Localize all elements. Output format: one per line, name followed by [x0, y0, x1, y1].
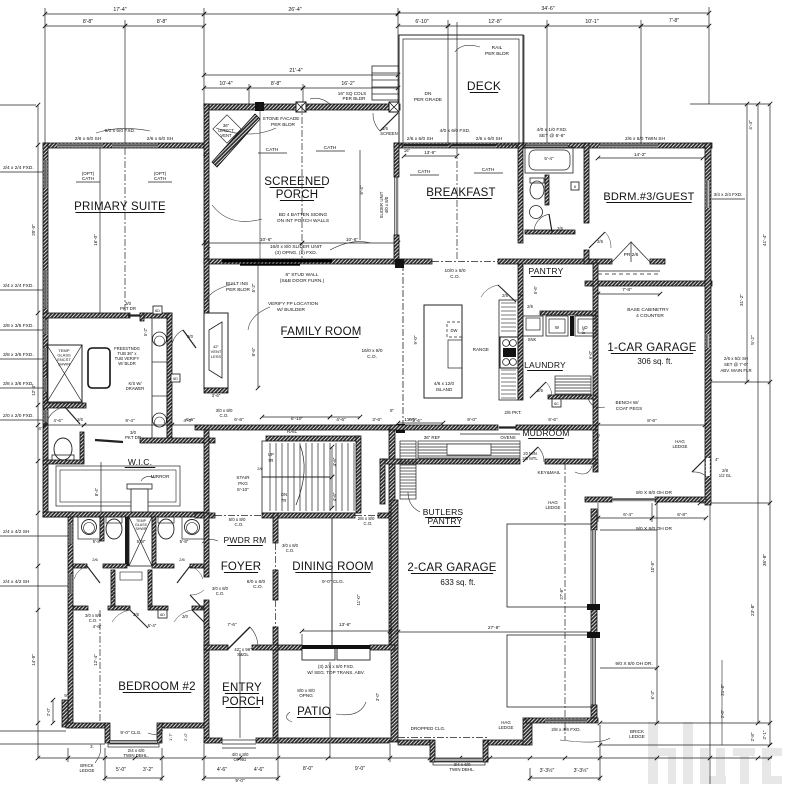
svg-text:2'-1": 2'-1"	[762, 730, 767, 739]
svg-text:2'-8": 2'-8"	[750, 732, 755, 741]
window twin SH	[600, 144, 658, 148]
svg-text:7'-8": 7'-8"	[622, 287, 632, 293]
svg-text:C.O.: C.O.	[450, 274, 460, 280]
window 2/8x4/6	[545, 719, 587, 723]
pocket door bath	[128, 314, 140, 316]
wall vanity east	[167, 313, 172, 440]
svg-text:ON INT PORCH WALLS: ON INT PORCH WALLS	[277, 218, 329, 224]
toilet bath2	[530, 181, 544, 199]
wall bedroom2 south east	[162, 723, 207, 728]
wall closet d	[192, 606, 205, 610]
svg-text:7R: 7R	[281, 498, 286, 503]
svg-text:1-CAR GARAGE: 1-CAR GARAGE	[607, 342, 696, 354]
svg-text:4'-6": 4'-6"	[93, 624, 102, 629]
svg-text:W.I.C.: W.I.C.	[128, 457, 152, 467]
svg-text:2/4 x 4/2 SH: 2/4 x 4/2 SH	[3, 579, 30, 585]
svg-text:C.O.: C.O.	[234, 522, 243, 527]
svg-text:3'-6": 3'-6"	[372, 417, 382, 423]
svg-text:ENTRY: ENTRY	[222, 682, 262, 694]
svg-text:RANGE: RANGE	[473, 347, 489, 352]
svg-text:9'-0" CLG.: 9'-0" CLG.	[120, 730, 141, 735]
svg-text:DECK: DECK	[467, 79, 501, 93]
wall garage south west piece	[585, 497, 612, 502]
svg-text:VENT: VENT	[220, 133, 232, 138]
svg-text:6D: 6D	[160, 613, 165, 617]
wall foyer north b	[262, 513, 355, 518]
svg-text:PR 2/6: PR 2/6	[624, 252, 639, 258]
svg-text:PER BLDR: PER BLDR	[485, 51, 510, 57]
svg-text:(S&B DOOR FURN.): (S&B DOOR FURN.)	[280, 278, 325, 284]
door bath2	[534, 214, 550, 232]
wall bdrm closet east	[650, 259, 665, 264]
svg-text:7'-8": 7'-8"	[669, 18, 679, 24]
svg-text:6'-8": 6'-8"	[677, 512, 687, 518]
svg-text:14'-8": 14'-8"	[31, 654, 36, 666]
svg-text:KEY&MAIL: KEY&MAIL	[538, 470, 561, 475]
wall top-left (primary suite)	[43, 143, 207, 148]
svg-text:CATH: CATH	[418, 169, 431, 175]
wall hall4	[190, 564, 205, 568]
svg-text:10'-6": 10'-6"	[260, 237, 273, 243]
svg-text:2/6: 2/6	[257, 466, 263, 471]
wall closet c	[150, 606, 168, 610]
svg-text:6'-10": 6'-10"	[415, 19, 428, 25]
svg-text:4'-6": 4'-6"	[183, 418, 193, 423]
door hall bath right	[177, 566, 190, 583]
closet shelf dash	[598, 270, 660, 272]
garage bay east	[483, 740, 488, 762]
svg-text:12'-4": 12'-4"	[31, 384, 36, 396]
bath hall sinks	[78, 517, 100, 539]
svg-text:9'-0": 9'-0"	[235, 778, 245, 783]
svg-text:2/0 x 2/0 FXD.: 2/0 x 2/0 FXD.	[3, 413, 34, 419]
svg-text:3'-6": 3'-6"	[212, 393, 221, 398]
fireplace niche family	[204, 313, 228, 388]
svg-text:4'-6": 4'-6"	[332, 492, 337, 501]
svg-text:4'-6": 4'-6"	[53, 418, 63, 423]
wall jog left	[43, 512, 73, 517]
wall WC east	[80, 432, 84, 462]
wall closet bottom / garage NW	[585, 281, 712, 286]
wall hall/WIC north	[140, 438, 215, 443]
wall WC north	[43, 403, 86, 408]
window	[44, 410, 48, 422]
svg-text:2'-0": 2'-0"	[46, 707, 51, 716]
window	[44, 160, 48, 188]
wall bdrm3 west upper	[584, 143, 589, 223]
wall garage south a	[398, 740, 430, 745]
svg-text:2/6: 2/6	[92, 557, 98, 562]
wall bdrm closet west	[596, 259, 612, 264]
svg-text:9'-0": 9'-0"	[355, 766, 365, 772]
wall bedroom2 south west	[66, 723, 105, 728]
svg-text:10'-6": 10'-6"	[346, 237, 359, 243]
svg-text:3/4 x 2/4 FXD.: 3/4 x 2/4 FXD.	[3, 165, 34, 171]
svg-text:26'-4": 26'-4"	[288, 7, 301, 13]
svg-text:23'-8": 23'-8"	[750, 604, 756, 617]
wall porch/family + breakfast/kitchen	[204, 259, 404, 264]
wall garage south step	[526, 718, 598, 723]
wall dining east	[389, 513, 395, 648]
svg-text:21'-8": 21'-8"	[720, 684, 725, 696]
WIC shelving	[56, 466, 180, 506]
svg-text:PATIO: PATIO	[297, 706, 331, 718]
wall left outer (primary suite)	[43, 143, 48, 517]
svg-text:SHWR: SHWR	[136, 527, 147, 531]
svg-text:5'-0": 5'-0"	[116, 767, 126, 773]
door bdrm3	[589, 232, 605, 248]
svg-text:SET @ 7'-0": SET @ 7'-0"	[724, 362, 749, 367]
svg-text:4/0 x 1/0 FXD.: 4/0 x 1/0 FXD.	[537, 127, 568, 133]
svg-text:D: D	[584, 325, 587, 330]
wall foyer west mid	[204, 513, 209, 577]
svg-text:OPNG: OPNG	[234, 757, 248, 762]
nook wall west	[380, 459, 385, 504]
watermark	[648, 722, 782, 784]
freestanding tub	[88, 348, 110, 388]
svg-text:6'-3": 6'-3"	[650, 690, 655, 699]
svg-text:8": 8"	[390, 408, 394, 413]
svg-text:12'-4": 12'-4"	[93, 654, 98, 666]
dim lines bottom	[38, 757, 772, 759]
wall top-right (breakfast/bath/bdrm3)	[394, 143, 712, 148]
wall foyer west upper	[204, 430, 209, 513]
svg-text:MUDROOM: MUDROOM	[522, 428, 569, 438]
wall 2car east pillar	[591, 607, 597, 635]
svg-text:12'-8": 12'-8"	[488, 19, 501, 25]
wall foyer/dining a	[273, 513, 278, 543]
svg-text:9'-0": 9'-0"	[413, 335, 418, 344]
svg-text:RAIL: RAIL	[492, 45, 503, 51]
svg-text:1/2 GL: 1/2 GL	[719, 473, 732, 478]
door bedroom2 a	[130, 610, 148, 628]
OH door 1-car	[612, 498, 655, 502]
svg-text:BENCH W/: BENCH W/	[616, 400, 640, 405]
svg-text:RAIL: RAIL	[287, 429, 298, 434]
svg-text:6": 6"	[207, 246, 211, 251]
svg-text:DN: DN	[425, 91, 432, 97]
wall entry east	[273, 650, 278, 743]
wall entry west	[204, 650, 209, 743]
svg-text:C.O.: C.O.	[363, 521, 372, 526]
svg-text:3'-2": 3'-2"	[143, 767, 153, 773]
pocket door WIC	[95, 440, 123, 442]
wall garage SE corner	[523, 718, 532, 745]
svg-text:27'-8": 27'-8"	[559, 588, 564, 600]
wall butlers north a	[390, 425, 498, 430]
window 4/0x1/0 FXD	[526, 144, 568, 148]
bay windows	[110, 740, 157, 744]
window 2/6x6/0 SH	[452, 144, 496, 148]
svg-text:PER GRADE: PER GRADE	[414, 97, 442, 103]
svg-text:2/6 x 6/0 SH: 2/6 x 6/0 SH	[476, 136, 503, 142]
shower	[47, 345, 82, 402]
wall closet a	[73, 606, 88, 610]
garage bay west	[430, 740, 435, 762]
svg-text:SCREEN: SCREEN	[380, 131, 397, 136]
svg-text:9'-0": 9'-0"	[467, 417, 477, 423]
svg-text:27'-8": 27'-8"	[488, 625, 501, 631]
svg-text:C.O.: C.O.	[367, 354, 377, 360]
svg-text:3'-0": 3'-0"	[375, 692, 380, 701]
door laundry	[530, 382, 546, 398]
svg-text:2/4 x 4/2 SH: 2/4 x 4/2 SH	[3, 529, 30, 535]
svg-text:306 sq. ft.: 306 sq. ft.	[637, 357, 672, 366]
window	[44, 320, 48, 334]
deck steps	[372, 66, 399, 100]
svg-text:6'-4": 6'-4"	[148, 623, 157, 628]
svg-text:FAMILY ROOM: FAMILY ROOM	[280, 326, 361, 338]
svg-text:2/6 x 6/0 SH: 2/6 x 6/0 SH	[407, 136, 434, 142]
OH door 2	[592, 635, 597, 705]
svg-text:21'-4": 21'-4"	[289, 68, 302, 74]
wall kitchen/laundry	[518, 295, 523, 400]
wall landing east	[389, 429, 395, 513]
svg-text:8'-6": 8'-6"	[647, 418, 657, 424]
svg-text:PANTRY: PANTRY	[529, 266, 564, 276]
svg-text:5'-4": 5'-4"	[544, 156, 554, 161]
wall breakfast west upper	[394, 143, 399, 177]
svg-text:C.O.: C.O.	[253, 584, 263, 590]
wall entry north a	[204, 645, 228, 650]
svg-text:COAT PEGS: COAT PEGS	[616, 406, 642, 411]
svg-text:BUILT INS: BUILT INS	[226, 281, 248, 287]
svg-text:2/6 PKT.: 2/6 PKT.	[504, 410, 521, 415]
svg-text:3.: 3.	[90, 744, 94, 749]
laundry counters	[523, 316, 543, 336]
wall entry south a	[204, 738, 222, 743]
svg-text:DINING ROOM: DINING ROOM	[292, 561, 373, 573]
svg-text:2/6: 2/6	[537, 388, 543, 393]
door primary bath	[183, 330, 196, 348]
deck outline	[399, 35, 523, 145]
kitchen cased opening	[432, 261, 498, 263]
svg-text:8'-0": 8'-0"	[303, 766, 313, 772]
svg-text:W/ SEG. TOP TRANS. ABV.: W/ SEG. TOP TRANS. ABV.	[307, 670, 365, 675]
svg-text:3/0: 3/0	[182, 614, 188, 619]
garage centerline	[564, 463, 566, 740]
kitchen island	[424, 305, 462, 398]
svg-text:PER BLDR: PER BLDR	[343, 96, 367, 101]
svg-text:4 COUNTER: 4 COUNTER	[636, 313, 664, 319]
partition bath3	[152, 517, 156, 566]
svg-text:4": 4"	[715, 457, 719, 462]
svg-text:PER BLDR: PER BLDR	[226, 287, 251, 293]
svg-text:8'-8": 8'-8"	[157, 19, 167, 25]
svg-text:9'-4": 9'-4"	[125, 418, 135, 423]
svg-text:3/4 x 2/4 FXD.: 3/4 x 2/4 FXD.	[3, 283, 34, 289]
svg-text:C.O.: C.O.	[219, 413, 228, 418]
svg-text:5'-2": 5'-2"	[143, 327, 148, 336]
svg-text:PWDR RM: PWDR RM	[224, 535, 267, 545]
wall hall WC west	[111, 570, 115, 610]
svg-text:6: 6	[574, 185, 576, 189]
svg-text:3/8 x 3/6 FXD.: 3/8 x 3/6 FXD.	[3, 352, 34, 358]
svg-text:CATH: CATH	[154, 176, 166, 181]
window 2/6x6/0 SH	[112, 144, 158, 148]
svg-text:4'-6": 4'-6"	[217, 767, 227, 773]
window 2/4x4/2	[69, 524, 73, 544]
svg-text:7R: 7R	[268, 458, 273, 463]
svg-text:31'-2": 31'-2"	[739, 294, 745, 307]
window garage 2/6x5/2	[706, 334, 710, 348]
entry steps	[222, 740, 256, 748]
bay west	[105, 723, 110, 743]
wall foyer north a	[195, 513, 215, 518]
svg-text:13'-8": 13'-8"	[424, 150, 436, 155]
16/0x8/0 slider unit (black bar)	[222, 260, 332, 263]
svg-text:5'-2": 5'-2"	[251, 283, 256, 292]
svg-text:TWIN DBHL.: TWIN DBHL.	[449, 767, 474, 772]
wall hall3	[152, 564, 174, 568]
svg-text:STAIR: STAIR	[236, 475, 250, 480]
sink bath2	[530, 206, 543, 219]
wall family west upper	[204, 259, 209, 313]
svg-text:PKT DR: PKT DR	[120, 306, 136, 311]
wall mudroom south	[545, 459, 596, 464]
svg-text:LESS: LESS	[211, 354, 222, 359]
svg-text:SLIDER UNIT: SLIDER UNIT	[379, 191, 384, 218]
svg-text:4": 4"	[203, 152, 207, 157]
svg-text:6'-4": 6'-4"	[623, 512, 633, 518]
wall foyer/dining b	[273, 570, 278, 600]
porch columns	[255, 102, 264, 111]
wall foyer/dining c	[273, 627, 278, 650]
wall stairs east	[356, 436, 361, 513]
svg-text:SCREENED: SCREENED	[264, 176, 330, 188]
dim lines right	[690, 103, 770, 105]
window 2/6x6/0 SH	[404, 144, 448, 148]
dark partition	[125, 517, 129, 566]
svg-text:PKT DR: PKT DR	[125, 435, 141, 440]
wall garage south east piece	[655, 497, 706, 502]
wall WIC south	[43, 512, 205, 517]
wall entry north b	[252, 645, 278, 650]
window	[44, 378, 48, 392]
wall garage south b	[488, 740, 528, 745]
wall bath2 west	[518, 143, 523, 243]
svg-text:CATH: CATH	[482, 167, 495, 173]
stair direction arrow	[296, 445, 304, 505]
butlers tall cabinet	[400, 441, 416, 499]
wall butlers south	[380, 459, 520, 464]
dim lines top	[45, 13, 204, 15]
wall butlers north b	[516, 425, 596, 430]
porch col line	[259, 104, 261, 259]
wall bath2 south	[525, 230, 575, 234]
svg-text:4'-4": 4'-4"	[748, 120, 754, 130]
vanity primary	[152, 318, 167, 440]
svg-text:16'-0": 16'-0"	[93, 234, 98, 246]
svg-text:5'-8": 5'-8"	[180, 539, 189, 544]
svg-text:2-CAR GARAGE: 2-CAR GARAGE	[407, 562, 496, 574]
svg-text:VERIFY FP LOCATION: VERIFY FP LOCATION	[268, 301, 319, 307]
door WC	[65, 407, 80, 424]
svg-text:6'-4": 6'-4"	[359, 185, 364, 194]
svg-text:ISLAND: ISLAND	[436, 387, 453, 392]
svg-text:DRAWER: DRAWER	[126, 386, 144, 391]
svg-text:LAUNDRY: LAUNDRY	[524, 360, 566, 370]
primary centerline	[99, 148, 101, 313]
svg-text:C.O.: C.O.	[89, 618, 98, 623]
svg-text:14'-2": 14'-2"	[634, 152, 647, 158]
svg-text:LEDGE: LEDGE	[499, 725, 514, 730]
wall left lower (bedroom2)	[68, 512, 73, 727]
svg-text:9/0 x 6/0 FXD.: 9/0 x 6/0 FXD.	[105, 128, 136, 134]
svg-text:DW: DW	[451, 328, 458, 333]
breakfast centerline	[456, 148, 458, 259]
wall porch left	[204, 104, 209, 262]
svg-text:36" REF: 36" REF	[424, 435, 441, 440]
bench stripes	[555, 376, 591, 395]
svg-text:PORCH: PORCH	[222, 696, 265, 708]
wall patio south	[278, 738, 390, 743]
svg-text:CATH: CATH	[324, 145, 337, 151]
svg-text:6D: 6D	[155, 309, 160, 313]
door hall bath left	[87, 566, 100, 583]
svg-text:3/8 x 3/6 FXD.: 3/8 x 3/6 FXD.	[3, 323, 34, 329]
family east open wall	[402, 264, 404, 425]
door pantry	[498, 285, 516, 302]
svg-text:PANTRY: PANTRY	[428, 516, 463, 526]
svg-text:2/8 x 4/6 FXD.: 2/8 x 4/6 FXD.	[551, 727, 580, 732]
svg-text:OVENS: OVENS	[500, 435, 515, 440]
wall 2-car west	[391, 500, 398, 742]
svg-text:9/0 X 8/0 OH DR.: 9/0 X 8/0 OH DR.	[615, 661, 652, 667]
svg-text:9'-0" CLG.: 9'-0" CLG.	[322, 579, 344, 585]
garage bay windows	[435, 758, 483, 762]
svg-text:4/6 x 12/0: 4/6 x 12/0	[434, 381, 455, 386]
svg-text:LEDGE: LEDGE	[80, 768, 95, 773]
wall toilet nook	[545, 175, 549, 205]
wall porch top	[204, 104, 400, 110]
svg-text:8'-4": 8'-4"	[94, 487, 99, 496]
window 2/6x6/0 SH	[57, 144, 103, 148]
svg-text:SHWR: SHWR	[58, 362, 70, 367]
svg-text:1'-7": 1'-7"	[168, 732, 173, 741]
svg-text:3/8 x 3/6 FXD.: 3/8 x 3/6 FXD.	[3, 381, 34, 387]
svg-text:FOYER: FOYER	[221, 561, 262, 573]
window 2/4x4/2	[69, 574, 73, 594]
OH door 1	[592, 530, 597, 607]
svg-text:CATH: CATH	[266, 147, 279, 153]
svg-text:SET @ 6'-8": SET @ 6'-8"	[539, 133, 566, 139]
wall bench south	[548, 395, 596, 399]
svg-text:2/6 x 5/2 SH: 2/6 x 5/2 SH	[724, 356, 748, 361]
svg-text:PKG: PKG	[238, 481, 248, 486]
svg-text:STONE FACADE: STONE FACADE	[263, 116, 300, 122]
svg-text:BEDROOM #2: BEDROOM #2	[118, 681, 195, 693]
door foyer/hall	[190, 595, 204, 610]
svg-text:16'-2": 16'-2"	[341, 81, 354, 87]
wall kitchen top west	[404, 259, 432, 264]
svg-text:MIRROR: MIRROR	[151, 474, 170, 479]
wall dining north b	[378, 513, 395, 518]
wall 1-car garage west	[593, 263, 598, 472]
svg-text:BD 4 BATTEN SIDING: BD 4 BATTEN SIDING	[279, 212, 328, 218]
svg-text:W/ BUILDER: W/ BUILDER	[277, 307, 306, 313]
shower X enclosure	[129, 517, 152, 566]
wall family south	[195, 425, 404, 430]
bedroom2 centerline	[99, 610, 101, 723]
wall hall WC east	[148, 570, 152, 610]
porch corner diagonal wall	[212, 114, 260, 167]
svg-text:4/0 x 6/0 FXD.: 4/0 x 6/0 FXD.	[440, 128, 471, 134]
svg-text:9/0 X 8/0 OH DR: 9/0 X 8/0 OH DR	[636, 526, 673, 532]
svg-text:C.O.: C.O.	[286, 548, 295, 553]
svg-text:633 sq. ft.: 633 sq. ft.	[440, 578, 475, 587]
svg-text:10/0 x 8/0: 10/0 x 8/0	[444, 268, 465, 274]
